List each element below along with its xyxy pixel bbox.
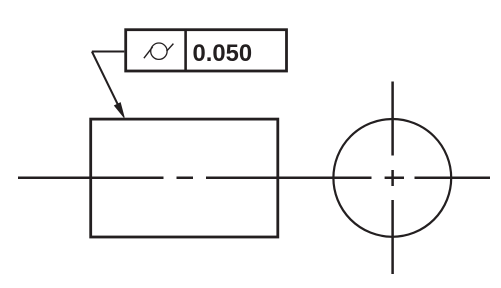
cylinder end view circle: [333, 119, 451, 237]
vertical centerline bottom segment: [391, 200, 394, 274]
leader diagonal segment: [92, 52, 121, 112]
feature control frame divider: [184, 30, 187, 71]
vertical centerline short center dash: [391, 170, 394, 186]
feature control frame outer box: [126, 30, 287, 71]
svg-text:0.050: 0.050: [193, 40, 253, 67]
cylindricity symbol left tangent line: [144, 47, 153, 58]
horizontal centerline middle long segment: [206, 177, 372, 180]
leader arrowhead: [115, 103, 125, 118]
horizontal centerline right long segment: [415, 177, 491, 180]
leader horizontal segment: [92, 51, 124, 53]
horizontal centerline short center dash (circle): [385, 177, 404, 180]
cylinder side view rectangle: [91, 119, 278, 237]
horizontal centerline left long segment: [18, 177, 164, 180]
vertical centerline top segment: [391, 82, 394, 156]
horizontal centerline short center dash (rectangle): [177, 177, 194, 180]
cylindricity symbol circle: [151, 43, 167, 59]
cylindricity symbol right tangent line: [167, 44, 174, 52]
